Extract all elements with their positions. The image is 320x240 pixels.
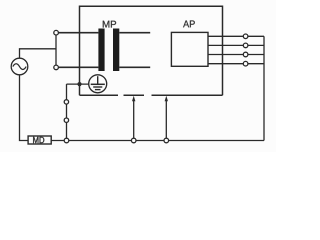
probe wire 1 with arrow to enclosure bbox=[132, 96, 135, 141]
earth link connection circle 2 bbox=[64, 118, 68, 122]
measuring device MD box bbox=[28, 136, 51, 144]
bottom rail wire bbox=[50, 140, 264, 142]
wire: source bottom lead to bottom rail bbox=[20, 74, 30, 140]
AC source G bbox=[11, 58, 28, 75]
wire: enclosure tap to protective earth bbox=[67, 83, 89, 85]
patient terminal circle 3 bbox=[243, 52, 248, 57]
probe junction circle 1 (on rail) bbox=[131, 138, 136, 143]
transformer MP primary winding bbox=[56, 29, 105, 72]
transformer MP secondary winding bbox=[113, 29, 150, 72]
probe junction circle 2 (on rail) bbox=[164, 138, 169, 143]
probe wire 2 with arrow to enclosure bbox=[165, 96, 168, 141]
enclosure box (equipment case) bbox=[80, 6, 223, 95]
patient terminal circle 4 bbox=[243, 61, 248, 66]
label MP bbox=[103, 21, 116, 28]
patient terminal circle 1 bbox=[243, 34, 248, 39]
earth link connection circle 3 (on rail) bbox=[64, 138, 69, 143]
wire: earth tap down to bottom rail bbox=[66, 84, 68, 140]
patient connection wire 3 bbox=[208, 54, 264, 56]
patient connection wire 1 bbox=[208, 35, 264, 37]
mains terminal circle top bbox=[54, 30, 59, 35]
bus wire from patient terminals down right side bbox=[263, 36, 265, 140]
protective earth symbol PE bbox=[89, 75, 107, 93]
patient connection wire 4 bbox=[208, 63, 264, 65]
wire: mains terminal link bbox=[55, 33, 57, 68]
earth link connection circle 1 bbox=[64, 100, 68, 104]
applied part AP box bbox=[171, 32, 208, 66]
junction dot (enclosure to earth wire) bbox=[77, 82, 81, 86]
label AP bbox=[183, 20, 195, 27]
wire: source top lead to mains link bbox=[20, 49, 57, 59]
patient connection wire 2 bbox=[208, 44, 264, 46]
patient terminal circle 2 bbox=[243, 43, 248, 48]
mains terminal circle bottom bbox=[54, 65, 59, 70]
label MD bbox=[33, 137, 44, 143]
